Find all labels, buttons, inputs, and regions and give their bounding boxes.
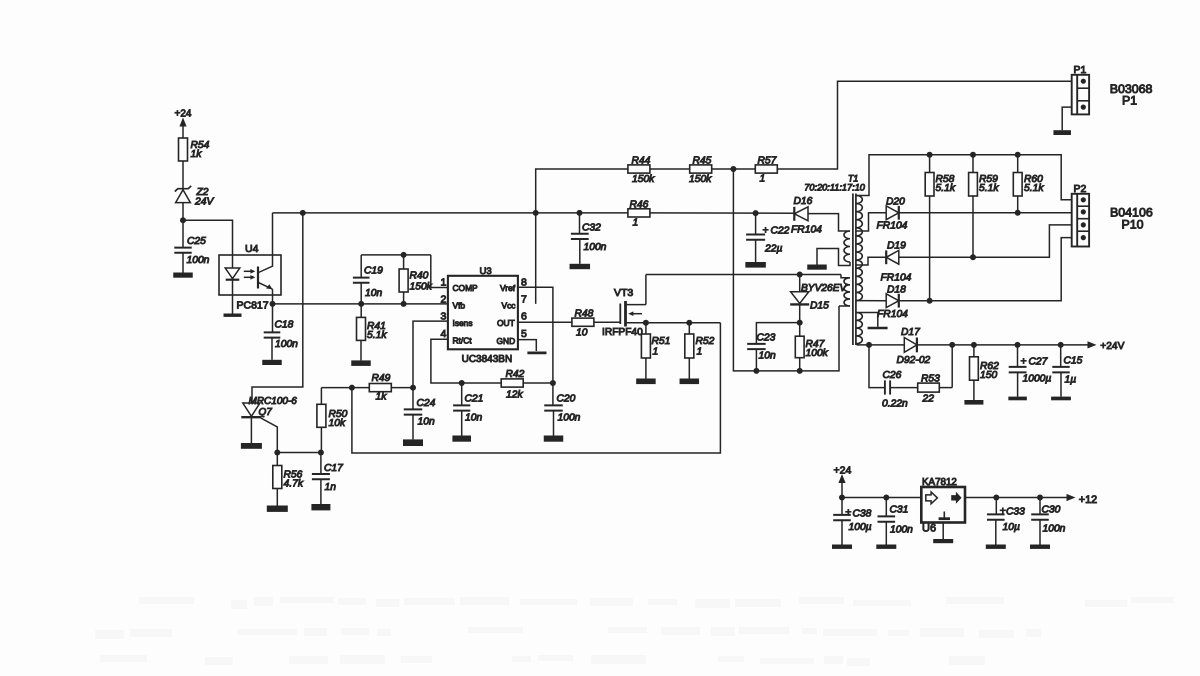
- svg-text:R49: R49: [372, 373, 391, 384]
- svg-text:C17: C17: [324, 463, 344, 474]
- svg-text:C21: C21: [465, 394, 484, 405]
- svg-text:C27: C27: [1029, 357, 1049, 368]
- svg-text:VT3: VT3: [614, 287, 633, 299]
- svg-text:U4: U4: [245, 243, 259, 255]
- svg-text:150: 150: [980, 370, 997, 381]
- svg-text:+12: +12: [1079, 494, 1097, 506]
- svg-text:10: 10: [576, 328, 588, 339]
- svg-text:10n: 10n: [759, 351, 776, 362]
- svg-text:100µ: 100µ: [849, 522, 872, 533]
- svg-text:D20: D20: [886, 197, 905, 208]
- svg-text:C18: C18: [275, 320, 294, 331]
- svg-text:10µ: 10µ: [1003, 522, 1020, 533]
- svg-text:D18: D18: [887, 285, 906, 296]
- svg-text:Isens: Isens: [453, 318, 473, 328]
- svg-text:R40: R40: [410, 271, 429, 282]
- svg-text:R48: R48: [575, 309, 594, 320]
- svg-text:10n: 10n: [365, 288, 382, 299]
- svg-text:D19: D19: [887, 241, 906, 252]
- svg-text:8: 8: [521, 276, 527, 288]
- svg-text:U3: U3: [480, 266, 492, 277]
- svg-text:4.7k: 4.7k: [284, 479, 304, 490]
- svg-text:+24: +24: [834, 464, 852, 476]
- svg-text:FR104: FR104: [877, 221, 908, 232]
- svg-text:5.1k: 5.1k: [936, 183, 956, 194]
- svg-text:1k: 1k: [376, 392, 388, 403]
- svg-text:OUT: OUT: [497, 318, 515, 328]
- svg-text:1: 1: [697, 347, 703, 358]
- svg-text:C25: C25: [187, 236, 206, 247]
- svg-text:100n: 100n: [890, 525, 913, 536]
- svg-text:22µ: 22µ: [764, 244, 782, 255]
- svg-text:D16: D16: [794, 196, 813, 207]
- svg-text:P2: P2: [1074, 183, 1087, 195]
- svg-text:24V: 24V: [194, 197, 214, 208]
- svg-text:FR104: FR104: [877, 309, 908, 320]
- svg-text:D92-02: D92-02: [897, 355, 931, 366]
- svg-text:10n: 10n: [418, 417, 435, 428]
- svg-text:D15: D15: [810, 301, 829, 312]
- svg-text:P1: P1: [1122, 94, 1137, 108]
- svg-text:Vfb: Vfb: [453, 301, 466, 311]
- svg-text:10k: 10k: [329, 418, 346, 429]
- svg-text:U6: U6: [922, 523, 936, 535]
- svg-text:KA7812: KA7812: [922, 477, 957, 488]
- svg-text:R44: R44: [632, 156, 651, 167]
- svg-text:100n: 100n: [584, 242, 607, 253]
- svg-text:12k: 12k: [506, 390, 523, 401]
- svg-text:1: 1: [633, 218, 639, 229]
- svg-text:5.1k: 5.1k: [979, 183, 999, 194]
- svg-text:D17: D17: [901, 327, 921, 338]
- svg-text:BYV26EV: BYV26EV: [801, 283, 848, 294]
- svg-text:150k: 150k: [689, 174, 712, 185]
- svg-text:UC3843BN: UC3843BN: [462, 354, 513, 365]
- svg-text:5.1k: 5.1k: [1024, 183, 1044, 194]
- svg-text:150k: 150k: [410, 282, 433, 293]
- svg-text:100n: 100n: [275, 339, 298, 350]
- svg-text:100n: 100n: [187, 255, 210, 266]
- svg-text:R46: R46: [630, 200, 649, 211]
- svg-text:C32: C32: [582, 223, 601, 234]
- svg-text:R51: R51: [652, 336, 671, 347]
- svg-text:7: 7: [521, 293, 527, 305]
- svg-text:FR104: FR104: [791, 225, 822, 236]
- svg-text:4: 4: [441, 328, 447, 340]
- svg-text:C33: C33: [1006, 507, 1025, 518]
- svg-text:Vref: Vref: [500, 283, 516, 293]
- svg-text:C22: C22: [771, 226, 790, 237]
- svg-text:1µ: 1µ: [1065, 375, 1077, 386]
- svg-text:+: +: [845, 507, 851, 519]
- svg-text:+: +: [763, 225, 769, 237]
- svg-text:C15: C15: [1064, 356, 1083, 367]
- svg-text:1: 1: [653, 347, 659, 358]
- svg-text:Rt/Ct: Rt/Ct: [453, 336, 473, 346]
- svg-text:MRC100-6: MRC100-6: [249, 396, 298, 407]
- svg-text:PC817: PC817: [237, 300, 269, 312]
- svg-text:R57: R57: [758, 156, 778, 167]
- svg-text:10n: 10n: [465, 413, 482, 424]
- svg-text:FR104: FR104: [881, 273, 912, 284]
- svg-text:P1: P1: [1074, 64, 1087, 76]
- svg-text:IRFPF40: IRFPF40: [602, 327, 643, 338]
- svg-text:R45: R45: [693, 156, 712, 167]
- svg-text:C19: C19: [364, 266, 383, 277]
- svg-text:C23: C23: [757, 333, 776, 344]
- svg-text:5: 5: [521, 328, 527, 340]
- svg-text:1000µ: 1000µ: [1023, 374, 1052, 385]
- svg-text:P10: P10: [1122, 217, 1144, 231]
- svg-text:R42: R42: [506, 369, 525, 380]
- svg-text:C26: C26: [883, 370, 902, 381]
- svg-text:70:20:11:17:10: 70:20:11:17:10: [804, 183, 866, 193]
- svg-text:6: 6: [521, 310, 527, 322]
- svg-text:R53: R53: [921, 374, 940, 385]
- svg-text:C31: C31: [890, 505, 909, 516]
- svg-text:1k: 1k: [191, 149, 203, 160]
- svg-text:+: +: [1021, 356, 1027, 368]
- svg-text:100n: 100n: [1043, 524, 1066, 535]
- svg-text:R52: R52: [696, 336, 715, 347]
- svg-text:100k: 100k: [806, 348, 829, 359]
- svg-text:C24: C24: [417, 398, 436, 409]
- svg-text:C20: C20: [557, 394, 576, 405]
- svg-text:150k: 150k: [632, 174, 655, 185]
- svg-text:GND: GND: [497, 336, 516, 346]
- svg-text:1: 1: [441, 277, 447, 289]
- svg-text:+24V: +24V: [1100, 341, 1124, 352]
- svg-text:+24: +24: [175, 108, 192, 119]
- svg-text:COMP: COMP: [453, 283, 479, 293]
- svg-text:22: 22: [922, 394, 935, 405]
- svg-text:C38: C38: [853, 509, 872, 520]
- svg-text:C30: C30: [1042, 505, 1061, 516]
- svg-text:0.22n: 0.22n: [882, 399, 908, 410]
- svg-text:Q7: Q7: [259, 407, 273, 418]
- svg-text:100n: 100n: [558, 413, 581, 424]
- svg-text:1n: 1n: [325, 482, 337, 493]
- svg-text:1: 1: [760, 174, 766, 185]
- svg-text:5.1k: 5.1k: [367, 330, 387, 341]
- svg-text:Vcc: Vcc: [502, 301, 516, 311]
